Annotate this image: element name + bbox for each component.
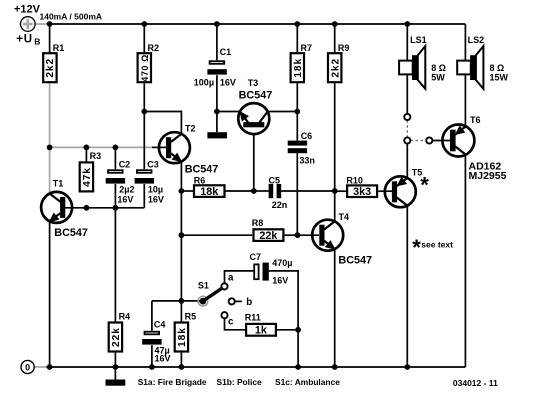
svg-text:C1: C1 bbox=[220, 47, 232, 57]
svg-text:BC547: BC547 bbox=[239, 89, 273, 101]
svg-text:16V: 16V bbox=[155, 354, 171, 364]
wire T3 emitter lead bbox=[217, 111, 240, 113]
wire T4 emitter to rail bbox=[334, 249, 336, 367]
selector contact circle mid bbox=[404, 137, 410, 143]
node R8 left bbox=[179, 232, 185, 238]
svg-text:S1: S1 bbox=[198, 281, 209, 291]
wire R7 top bbox=[296, 24, 298, 52]
dashed link to T6 base bbox=[411, 140, 427, 142]
svg-text:33n: 33n bbox=[299, 156, 315, 166]
wire R10 right lead to T5 base bbox=[378, 190, 393, 192]
svg-text:22k: 22k bbox=[111, 327, 122, 347]
node rail R4 bbox=[113, 364, 119, 370]
svg-text:R7: R7 bbox=[301, 43, 313, 53]
supply terminal +12V bbox=[14, 3, 102, 46]
wire T2 collector bbox=[144, 112, 181, 134]
svg-text:140mA / 500mA: 140mA / 500mA bbox=[40, 11, 103, 21]
svg-text:see text: see text bbox=[421, 239, 453, 249]
svg-text:T2: T2 bbox=[185, 124, 196, 134]
wire C4 bottom to rail bbox=[151, 345, 153, 367]
node T3 base bbox=[251, 188, 257, 194]
capacitor C1 100u bbox=[194, 47, 236, 87]
svg-text:BC547: BC547 bbox=[185, 164, 219, 176]
wire R6 left lead bbox=[181, 190, 193, 192]
svg-text:16V: 16V bbox=[220, 77, 236, 87]
wire R2 bottom to C3 top bbox=[143, 83, 145, 169]
wire R10 left lead bbox=[335, 190, 346, 192]
svg-text:18k: 18k bbox=[200, 186, 219, 198]
wire T6 collector to rail bbox=[464, 154, 466, 367]
wire LS1 bottom to contact circle bbox=[406, 74, 408, 114]
wire T2 base black stub bbox=[152, 146, 166, 148]
svg-text:3k3: 3k3 bbox=[353, 186, 371, 198]
wire R8 left lead bbox=[181, 234, 252, 236]
dashed link LS1 to T5 bbox=[406, 120, 408, 137]
node rail R9 bbox=[332, 21, 338, 27]
capacitor C5 22n bbox=[269, 175, 288, 210]
svg-text:1k: 1k bbox=[255, 325, 268, 337]
svg-text:+12V: +12V bbox=[14, 3, 41, 15]
selector contact circle T6 base bbox=[426, 137, 432, 143]
svg-text:+U: +U bbox=[16, 34, 33, 46]
node rail R7 bbox=[294, 21, 300, 27]
wire T4 base lead bbox=[298, 234, 320, 236]
svg-text:R6: R6 bbox=[194, 175, 206, 185]
svg-text:R4: R4 bbox=[119, 312, 131, 322]
node T4 base bbox=[295, 232, 301, 238]
wire C6 bottom to T4 base node bbox=[296, 153, 298, 235]
resistor R7 18k bbox=[291, 43, 312, 82]
wire contact b stub bbox=[235, 300, 242, 302]
node rail R11 bbox=[295, 364, 301, 370]
wire LS2 bottom to T6 emitter bbox=[464, 74, 466, 127]
svg-text:18k: 18k bbox=[177, 327, 188, 347]
svg-text:T1: T1 bbox=[53, 179, 64, 189]
resistor R3 47k bbox=[80, 151, 101, 191]
wire R8 right lead bbox=[285, 234, 298, 236]
wire R1 top bbox=[49, 24, 51, 52]
svg-text:b: b bbox=[246, 297, 252, 308]
svg-text:R10: R10 bbox=[346, 175, 363, 185]
svg-text:100µ: 100µ bbox=[194, 77, 214, 87]
capacitor C2 2u2 bbox=[106, 160, 135, 205]
ground bar bottom bbox=[106, 367, 126, 386]
wire R2 top bbox=[143, 24, 145, 52]
node R3 bottom bbox=[84, 205, 90, 211]
wire R6 right lead bbox=[225, 190, 253, 192]
svg-text:5W: 5W bbox=[431, 72, 445, 82]
wire top supply rail bbox=[50, 23, 466, 25]
node R3 top bbox=[84, 145, 90, 151]
node rail C1 bbox=[214, 21, 220, 27]
resistor R6 18k bbox=[194, 175, 225, 198]
transistor T4 BC547 bbox=[312, 212, 372, 266]
svg-text:R9: R9 bbox=[338, 43, 350, 53]
wire LS1 top bbox=[406, 24, 408, 61]
svg-text:T4: T4 bbox=[339, 212, 350, 222]
wire R4 bottom lead bbox=[114, 353, 116, 367]
svg-text:2µ2: 2µ2 bbox=[119, 184, 134, 194]
capacitor C6 33n bbox=[288, 131, 315, 166]
resistor R8 22k bbox=[252, 218, 284, 242]
wire R5 bottom lead bbox=[180, 353, 182, 367]
transistor T2 BC547 bbox=[159, 124, 218, 176]
wire contact to T5 emitter bbox=[406, 144, 408, 179]
wire T4 collector lead bbox=[334, 191, 336, 222]
svg-text:*: * bbox=[412, 235, 421, 260]
svg-text:470 Ω: 470 Ω bbox=[140, 54, 150, 82]
resistor R4 22k bbox=[109, 312, 130, 352]
svg-text:S1a: Fire Brigade: S1a: Fire Brigade bbox=[138, 377, 207, 387]
wire gray net R1 bottom to T1 collector bbox=[49, 83, 51, 193]
wire R11 right lead bbox=[277, 329, 298, 331]
wire C4 drop from pole node bbox=[151, 301, 153, 331]
svg-text:c: c bbox=[228, 317, 234, 328]
wire T1 base horizontal bbox=[65, 207, 144, 209]
wire bottom ground rail bbox=[46, 366, 465, 368]
svg-text:18k: 18k bbox=[293, 58, 304, 78]
capacitor C7 470u bbox=[250, 252, 293, 286]
svg-text:S1b: Police: S1b: Police bbox=[217, 377, 262, 387]
selector contact circle LS1 bbox=[404, 114, 410, 120]
svg-text:22n: 22n bbox=[272, 200, 288, 210]
svg-text:16V: 16V bbox=[117, 194, 133, 204]
wire R7 bottom to C6 bbox=[296, 83, 298, 140]
transistor T6 AD162/MJ2955 bbox=[442, 115, 506, 182]
node rail R2 bbox=[141, 21, 147, 27]
wire R9 bottom to node bbox=[334, 83, 336, 191]
wire R4 top lead bbox=[114, 208, 116, 322]
wire switch contact a up to C7 bbox=[225, 271, 254, 283]
resistor R5 18k bbox=[175, 312, 196, 352]
node R6 left bbox=[179, 188, 185, 194]
wire T1 emitter to rail bbox=[49, 222, 51, 368]
svg-text:R2: R2 bbox=[148, 43, 160, 53]
svg-text:10µ: 10µ bbox=[148, 184, 163, 194]
node T3 collector bbox=[294, 109, 300, 115]
wire T3 base lead bbox=[253, 134, 255, 191]
wire LS2 feed from rail corner bbox=[464, 24, 466, 61]
svg-text:a: a bbox=[228, 272, 234, 283]
svg-text:R1: R1 bbox=[53, 43, 65, 53]
svg-text:034012 - 11: 034012 - 11 bbox=[453, 378, 498, 388]
wire T2 emitter vertical to S1 pole node bbox=[180, 162, 182, 301]
svg-text:2k2: 2k2 bbox=[45, 58, 56, 78]
svg-text:470µ: 470µ bbox=[272, 258, 292, 268]
node R11 right bbox=[295, 327, 301, 333]
svg-text:LS1: LS1 bbox=[410, 35, 427, 45]
transistor T5 PNP bbox=[385, 167, 430, 207]
wire R3 top lead bbox=[85, 147, 87, 161]
svg-text:R3: R3 bbox=[90, 151, 102, 161]
svg-text:R8: R8 bbox=[252, 218, 264, 228]
node T2 collector bbox=[141, 109, 147, 115]
svg-text:C6: C6 bbox=[301, 131, 313, 141]
svg-text:S1c: Ambulance: S1c: Ambulance bbox=[275, 377, 340, 387]
resistor R9 2k2 bbox=[328, 43, 349, 82]
svg-text:BC547: BC547 bbox=[54, 227, 88, 239]
svg-text:47k: 47k bbox=[82, 167, 93, 187]
svg-text:T6: T6 bbox=[470, 115, 481, 125]
node rail C4 bbox=[149, 364, 155, 370]
wire supply stub gray bbox=[35, 23, 47, 25]
ground terminal 0 bbox=[21, 360, 34, 373]
svg-text:C4: C4 bbox=[154, 320, 166, 330]
node C1 ground bbox=[214, 109, 220, 115]
loudspeaker LS2 bbox=[457, 35, 508, 89]
svg-text:0: 0 bbox=[25, 362, 30, 372]
wire C1 bottom to ground bbox=[216, 75, 218, 132]
transistor T1 BC547 bbox=[41, 179, 88, 240]
wire C3 bottom lead bbox=[143, 184, 145, 208]
wire gray net horizontal to T2 base bbox=[50, 146, 152, 148]
wire T6 base stub bbox=[432, 140, 451, 142]
svg-text:16V: 16V bbox=[272, 275, 288, 285]
loudspeaker LS1 bbox=[399, 35, 446, 89]
wire C5 left lead bbox=[254, 190, 269, 192]
node rail T5 bbox=[404, 364, 410, 370]
node R9 bottom bbox=[332, 188, 338, 194]
svg-text:C2: C2 bbox=[119, 160, 131, 170]
switch S1 bbox=[198, 272, 252, 327]
resistor R2 470R bbox=[138, 43, 159, 82]
wire C7 right to R11 node bbox=[269, 271, 298, 367]
transistor T3 BC547 bbox=[238, 78, 272, 134]
resistor R10 3k3 bbox=[346, 175, 377, 198]
node rail LS1 bbox=[404, 21, 410, 27]
svg-text:T3: T3 bbox=[248, 78, 259, 88]
svg-text:R5: R5 bbox=[185, 312, 197, 322]
svg-text:2k2: 2k2 bbox=[330, 58, 341, 78]
capacitor C4 47u bbox=[142, 320, 170, 364]
svg-text:C5: C5 bbox=[269, 175, 281, 185]
node supply in bbox=[47, 21, 53, 27]
wire C1 top bbox=[216, 24, 218, 60]
wire C2 bottom lead bbox=[114, 184, 116, 208]
svg-text:LS2: LS2 bbox=[468, 35, 485, 45]
wire R5 top lead bbox=[180, 301, 182, 322]
wire T3 collector lead bbox=[267, 111, 297, 113]
node S1 pole bbox=[179, 298, 185, 304]
node C2 bottom bbox=[113, 205, 119, 211]
wire S1 pole horizontal bbox=[152, 300, 203, 302]
svg-text:B: B bbox=[34, 36, 40, 46]
svg-text:C7: C7 bbox=[250, 252, 262, 262]
svg-text:15W: 15W bbox=[490, 72, 509, 82]
svg-text:R11: R11 bbox=[245, 312, 261, 322]
resistor R1 2k2 bbox=[43, 43, 64, 82]
node gray rail left bbox=[47, 145, 53, 151]
wire R9 top bbox=[334, 24, 336, 52]
wire T5 collector to rail bbox=[406, 205, 408, 367]
wire ground stub gray bbox=[34, 366, 46, 368]
svg-text:MJ2955: MJ2955 bbox=[469, 170, 507, 182]
wire C5 right lead bbox=[281, 190, 335, 192]
svg-text:*: * bbox=[420, 173, 429, 198]
svg-text:16V: 16V bbox=[148, 194, 164, 204]
wire C2 top lead bbox=[114, 147, 116, 169]
node rail R5 bbox=[179, 364, 185, 370]
node rail T4 bbox=[332, 364, 338, 370]
capacitor C3 10u bbox=[135, 160, 164, 205]
resistor R11 1k bbox=[245, 312, 276, 336]
svg-text:BC547: BC547 bbox=[338, 254, 372, 266]
svg-text:C3: C3 bbox=[147, 160, 159, 170]
wire switch contact c down to R11 bbox=[225, 318, 246, 330]
node rail T1 bbox=[47, 364, 53, 370]
ground bar under C1 bbox=[207, 132, 227, 138]
svg-text:22k: 22k bbox=[259, 230, 278, 242]
node C2 top bbox=[113, 145, 119, 151]
